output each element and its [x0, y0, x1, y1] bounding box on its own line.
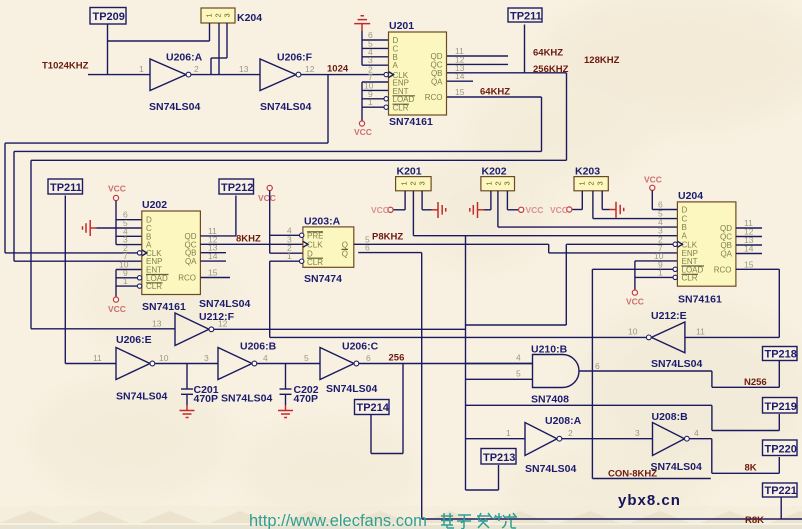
svg-text:3: 3 — [223, 13, 232, 17]
svg-text:SN74LS04: SN74LS04 — [221, 393, 273, 405]
svg-text:U201: U201 — [389, 20, 414, 32]
wire U206:E out to U206:B in — [155, 363, 218, 365]
connector K204 — [201, 8, 235, 23]
node 8K — [745, 463, 757, 474]
svg-text:256KHZ: 256KHZ — [533, 64, 569, 75]
svg-text:VCC: VCC — [258, 193, 276, 203]
svg-text:4: 4 — [516, 353, 521, 363]
svg-text:1: 1 — [287, 251, 292, 261]
svg-text:1: 1 — [506, 428, 511, 438]
svg-text:SN74161: SN74161 — [389, 116, 433, 128]
svg-text:2: 2 — [194, 64, 199, 74]
testpoint TP214 — [355, 400, 390, 415]
wire K201 pin2 to U204 A — [413, 191, 677, 236]
svg-text:VCC: VCC — [108, 304, 126, 314]
svg-text:SN74LS04: SN74LS04 — [260, 101, 312, 113]
wire CON-8KHZ — [592, 439, 710, 479]
wire TP209 tap — [108, 24, 210, 75]
node T1024KHZ — [42, 61, 89, 72]
testpoint TP211 top — [508, 8, 542, 23]
wire U208:A out to U208:B in — [562, 438, 653, 440]
svg-text:2: 2 — [587, 181, 596, 185]
wire U201 QC stub — [447, 63, 509, 65]
wire T1024KHZ input net — [88, 74, 150, 76]
node 8KHZ — [236, 234, 261, 245]
wire 256KHZ QB L3 to U212:F input — [31, 73, 567, 329]
svg-text:15: 15 — [455, 87, 465, 97]
wire U204 QA stub — [736, 253, 762, 255]
svg-text:U212:E: U212:E — [651, 310, 687, 322]
svg-text:QA: QA — [431, 77, 443, 86]
svg-text:15: 15 — [208, 268, 218, 278]
svg-text:4: 4 — [694, 428, 699, 438]
wire U212:F output — [214, 328, 466, 330]
svg-text:VCC: VCC — [354, 127, 372, 137]
svg-text:470P: 470P — [294, 393, 319, 405]
testpoint TP212 — [219, 179, 254, 194]
svg-text:1: 1 — [139, 64, 144, 74]
wire U212:E output to U203 CLR — [270, 336, 647, 338]
wire U201 QD stub — [447, 55, 509, 57]
svg-text:U210:B: U210:B — [531, 344, 568, 356]
testpoint TP221 — [763, 483, 798, 497]
wire U202 QB stub — [200, 252, 226, 254]
node P8KHZ — [372, 232, 403, 243]
svg-text:QA: QA — [720, 250, 732, 259]
node N256 — [744, 377, 767, 388]
power VCC U204 D — [644, 175, 662, 191]
svg-text:SN74161: SN74161 — [142, 301, 186, 313]
connector K203 — [574, 166, 608, 191]
svg-text:VCC: VCC — [371, 205, 389, 215]
svg-text:3: 3 — [418, 181, 427, 185]
node 128KHZ — [584, 55, 620, 66]
svg-text:2: 2 — [494, 181, 503, 185]
IC U204 SN74161 — [654, 190, 754, 306]
svg-text:VCC: VCC — [108, 184, 126, 194]
ground K202 — [470, 202, 484, 218]
inverter U206:A — [139, 52, 203, 114]
svg-text:RCO: RCO — [178, 274, 196, 283]
svg-text:U206:E: U206:E — [116, 334, 152, 346]
svg-text:U208:A: U208:A — [545, 415, 582, 427]
wire N256 U210:B out to TP218 — [579, 361, 779, 388]
svg-text:CLK: CLK — [307, 241, 323, 250]
svg-text:TP212: TP212 — [221, 182, 253, 194]
ground C202 — [278, 405, 293, 418]
svg-text:13: 13 — [152, 319, 162, 329]
inverter U206:C — [304, 341, 379, 396]
svg-text:RCO: RCO — [714, 265, 732, 274]
svg-text:TP220: TP220 — [765, 444, 797, 456]
svg-text:11: 11 — [93, 353, 102, 363]
wire 1024 feedback L1 to U202 CLK — [5, 75, 328, 253]
svg-text:1: 1 — [485, 181, 494, 185]
svg-text:1: 1 — [658, 267, 663, 277]
inverter U208:B — [635, 411, 702, 473]
svg-text:470P: 470P — [194, 393, 219, 405]
wire U201 DCBA stubs — [362, 40, 389, 65]
wire K202 pin2 to U204 B — [498, 191, 678, 227]
svg-text:SN74LS04: SN74LS04 — [326, 383, 378, 395]
svg-text:2: 2 — [409, 181, 418, 185]
svg-text:ybx8.cn: ybx8.cn — [618, 492, 681, 509]
wire mid vertical bus — [465, 236, 467, 490]
wire U203 PRE and D pull-ups — [270, 191, 303, 254]
wire U206:A out to U206:F in — [191, 74, 260, 76]
ground K203 — [610, 202, 624, 218]
label K204 — [237, 12, 262, 24]
wire K203 pin2 to U204 C — [593, 191, 678, 219]
svg-text:1: 1 — [205, 13, 214, 17]
svg-text:K204: K204 — [237, 12, 262, 24]
svg-text:K201: K201 — [397, 166, 422, 178]
svg-text:U202: U202 — [142, 199, 167, 211]
svg-text:3: 3 — [503, 181, 512, 185]
wire 1024 net U206:F out to U201 CLK — [301, 74, 384, 76]
svg-text:U212:F: U212:F — [199, 311, 235, 323]
svg-text:A: A — [393, 61, 399, 70]
node 1024 — [327, 64, 349, 75]
wire TP211 to U206:E input — [65, 196, 116, 364]
svg-text:U206:B: U206:B — [240, 341, 277, 353]
wire U201 QA stub — [447, 80, 474, 82]
svg-text:Q: Q — [342, 241, 348, 250]
wire U204 QC stub — [736, 236, 762, 238]
svg-text:64KHZ: 64KHZ — [480, 87, 510, 98]
wire TP219 link — [466, 405, 780, 430]
svg-text:SN7408: SN7408 — [531, 394, 569, 406]
svg-text:13: 13 — [239, 64, 249, 74]
svg-text:TP209: TP209 — [93, 11, 125, 23]
svg-text:TP211: TP211 — [510, 11, 542, 23]
connector K201 — [396, 166, 432, 191]
svg-text:256: 256 — [389, 353, 405, 364]
IC U201 SN74161 — [364, 20, 465, 128]
svg-text:1: 1 — [368, 97, 373, 107]
node 256KHZ — [533, 64, 569, 75]
svg-text:http://www.elecfans.com: http://www.elecfans.com — [249, 512, 427, 529]
wire U202 RCO stub — [200, 277, 230, 279]
wire U203 CLR to U212:E output net — [270, 261, 300, 337]
svg-text:SN74LS04: SN74LS04 — [525, 463, 577, 475]
node 64KHZ at RCO — [480, 87, 510, 98]
wire K201 pin3 to ground — [422, 191, 431, 210]
svg-text:2: 2 — [568, 428, 573, 438]
wire U204 RCO to U212:E input — [685, 269, 779, 337]
testpoint TP220 — [763, 440, 798, 456]
testpoint TP219 — [763, 398, 798, 414]
svg-text:R8K: R8K — [745, 515, 764, 526]
svg-text:1024: 1024 — [327, 64, 349, 75]
svg-text:N256: N256 — [744, 377, 767, 388]
wire 256 net U206:C out to U210:B — [359, 363, 533, 365]
ground U201 preset inputs — [354, 16, 370, 65]
wire U210:B input 5 — [466, 378, 533, 380]
wire U201 enable stubs to VCC — [362, 82, 389, 121]
wire U202 preset bus — [116, 201, 142, 245]
svg-text:12: 12 — [305, 64, 315, 74]
power VCC U202 bottom — [108, 297, 126, 314]
svg-text:1: 1 — [400, 181, 409, 185]
wire U204 QD stub — [736, 227, 762, 229]
svg-text:TP219: TP219 — [765, 401, 797, 413]
svg-text:T1024KHZ: T1024KHZ — [42, 61, 89, 72]
svg-text:3: 3 — [635, 428, 640, 438]
svg-text:VCC: VCC — [526, 205, 544, 215]
svg-text:SN74161: SN74161 — [678, 294, 722, 306]
svg-text:TP211: TP211 — [50, 182, 82, 194]
wire K204 pins — [210, 23, 228, 75]
testpoint TP211 left — [48, 179, 83, 194]
wire U204 ENT CLR to VCC — [635, 261, 678, 290]
wire U202 QA stub — [200, 260, 226, 262]
testpoint TP218 — [763, 347, 798, 361]
power VCC U201 — [354, 121, 372, 137]
testpoint TP213 — [481, 449, 516, 465]
power VCC K201 — [371, 205, 393, 215]
svg-text:SN74LS04: SN74LS04 — [199, 298, 251, 310]
svg-text:10: 10 — [628, 327, 638, 337]
inverter U206:B — [204, 341, 277, 405]
svg-text:12: 12 — [218, 319, 228, 329]
inverter U206:E — [93, 334, 169, 403]
svg-text:Q: Q — [342, 249, 348, 258]
wire 8K U208:B out to TP220 — [689, 439, 779, 474]
svg-text:8KHZ: 8KHZ — [236, 234, 261, 245]
svg-text:VCC: VCC — [644, 175, 662, 185]
svg-text:1: 1 — [123, 276, 128, 286]
wire R8K to TP221 — [780, 497, 782, 519]
svg-text:4: 4 — [263, 353, 268, 363]
wire TP211 tap on 256KHZ — [524, 25, 526, 73]
wire U204 LOAD line — [592, 269, 673, 438]
svg-text:SN74LS04: SN74LS04 — [149, 101, 201, 113]
svg-text:CLR: CLR — [146, 282, 162, 291]
svg-text:11: 11 — [696, 327, 705, 337]
ground K201 — [432, 202, 446, 218]
capacitor C201 — [181, 364, 219, 406]
inverter U212:E — [628, 310, 705, 370]
ground C201 — [180, 405, 195, 418]
wire 8KHZ U202 QC to U203 CLK — [200, 243, 303, 245]
svg-text:SN74LS04: SN74LS04 — [651, 461, 703, 473]
IC U202 SN74161 — [119, 199, 218, 313]
inverter U212:F — [152, 298, 251, 346]
svg-text:TP213: TP213 — [483, 452, 515, 464]
svg-text:64KHZ: 64KHZ — [533, 48, 563, 59]
svg-text:U206:A: U206:A — [166, 52, 203, 64]
testpoint TP209 — [90, 8, 126, 25]
svg-text:D: D — [682, 206, 688, 215]
svg-text:8K: 8K — [745, 463, 757, 474]
svg-text:1: 1 — [578, 181, 587, 185]
svg-text:PRE: PRE — [307, 232, 323, 241]
capacitor C202 — [280, 364, 319, 406]
power VCC U202 preset — [108, 184, 126, 201]
wire U204 D pull-up — [652, 190, 677, 209]
svg-text:CLR: CLR — [393, 104, 409, 113]
svg-text:SN7474: SN7474 — [304, 273, 342, 285]
svg-text:TP214: TP214 — [357, 402, 390, 414]
watermark ybx8.cn — [618, 492, 681, 509]
node R8K — [745, 515, 764, 526]
node 64KHZ — [533, 48, 563, 59]
svg-text:5: 5 — [516, 369, 521, 379]
svg-text:2: 2 — [214, 13, 223, 17]
watermark url — [249, 512, 517, 529]
svg-text:3: 3 — [596, 181, 605, 185]
svg-text:6: 6 — [595, 361, 600, 371]
node CON-8KHZ — [608, 469, 657, 480]
wire TP214 loop to 256 net — [371, 364, 403, 454]
wire K203 pin1 to VCC — [572, 191, 583, 210]
svg-text:3: 3 — [204, 353, 209, 363]
svg-text:6: 6 — [366, 353, 371, 363]
svg-text:128KHZ: 128KHZ — [584, 55, 620, 66]
svg-text:QA: QA — [185, 257, 197, 266]
power VCC K203 — [550, 205, 572, 215]
IC U203:A SN7474 — [287, 216, 370, 286]
svg-text:VCC: VCC — [550, 205, 568, 215]
svg-text:14: 14 — [455, 71, 465, 81]
wire U210:B input 4 — [466, 363, 533, 365]
power VCC K202 — [519, 205, 544, 215]
svg-text:U203:A: U203:A — [304, 216, 341, 228]
svg-text:VCC: VCC — [626, 297, 644, 307]
ground U202 C input — [83, 220, 142, 236]
bottom decorative band — [0, 506, 802, 529]
wire P8KHZ U203 Q to U204 CLK and ENP — [354, 244, 678, 325]
svg-text:K202: K202 — [482, 166, 507, 178]
wire K202 pin3 to VCC — [507, 191, 518, 210]
wire U202 QD to TP212 — [200, 235, 236, 237]
wire K203 pin3 to ground — [602, 191, 609, 210]
wire K202 pin1 to ground — [484, 191, 491, 210]
svg-text:P8KHZ: P8KHZ — [372, 232, 403, 243]
svg-text:SN74LS04: SN74LS04 — [116, 391, 168, 403]
node 256 — [389, 353, 405, 364]
svg-text:TP221: TP221 — [765, 485, 797, 497]
wire U202 lower stubs to VCC — [116, 270, 142, 298]
svg-text:RCO: RCO — [425, 93, 443, 102]
inverter U206:F — [239, 52, 315, 114]
wire TP213 stub — [466, 465, 499, 490]
svg-text:15: 15 — [744, 259, 754, 269]
svg-text:5: 5 — [304, 353, 309, 363]
svg-text:U208:B: U208:B — [652, 411, 689, 423]
wire U208:A input — [466, 438, 526, 440]
wire 64KHZ RCO L2 to U202 ENP — [14, 97, 542, 261]
svg-text:TP218: TP218 — [765, 349, 797, 361]
svg-text:U206:C: U206:C — [342, 341, 379, 353]
AND gate U210:B — [516, 344, 600, 406]
wire TP212 to U202 QD — [235, 196, 237, 236]
svg-text:K203: K203 — [575, 166, 600, 178]
power VCC U203 PRE — [258, 185, 276, 203]
connector K202 — [481, 166, 515, 191]
svg-text:CLR: CLR — [307, 258, 323, 267]
wire U204 QB stub — [736, 244, 762, 246]
wire U206:B out to U206:C in — [257, 363, 320, 365]
svg-text:U204: U204 — [678, 190, 703, 202]
svg-text:U206:F: U206:F — [277, 52, 313, 64]
wire K201 pin1 to VCC — [393, 191, 405, 210]
wire U203 Qbar down — [358, 253, 802, 519]
inverter U208:A — [506, 415, 582, 475]
svg-text:SN74LS04: SN74LS04 — [651, 358, 703, 370]
power VCC U204 bottom — [626, 290, 644, 307]
svg-text:10: 10 — [159, 353, 169, 363]
